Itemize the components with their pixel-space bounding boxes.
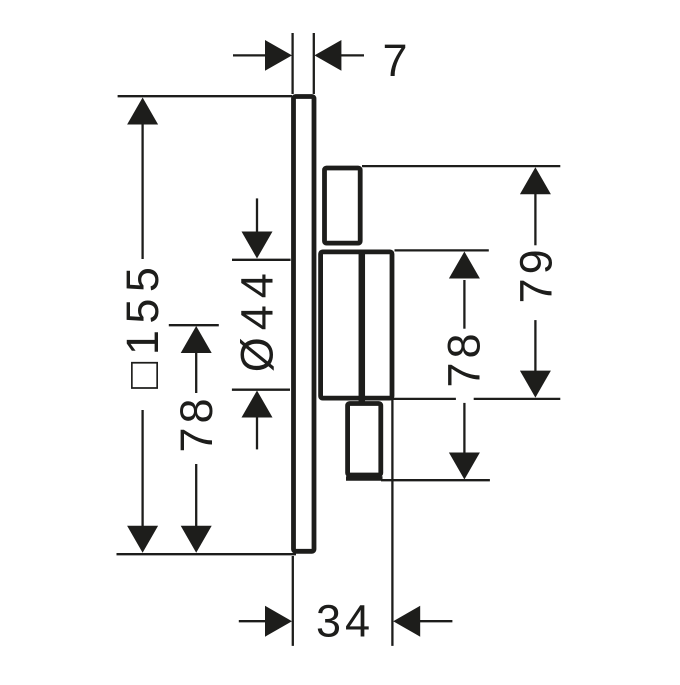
svg-text:Ø44: Ø44 xyxy=(232,266,283,372)
arrow 79 down xyxy=(520,371,551,398)
svg-text:7: 7 xyxy=(382,35,407,86)
lower stub bottom edge band xyxy=(346,476,383,481)
arrow d44 up xyxy=(242,391,273,418)
extension line bottom (plate bottom, y=554) xyxy=(117,553,297,555)
dim d44 boundary lower xyxy=(232,389,290,391)
dimension 7 line right xyxy=(341,54,364,56)
extension line 7-dim left xyxy=(291,33,293,94)
extension line 34-dim right xyxy=(391,400,393,646)
dim 79 leader upper xyxy=(534,193,536,245)
mixer body xyxy=(321,252,392,398)
arrow 155 down xyxy=(127,526,158,553)
arrow 79 up xyxy=(520,167,551,194)
extension line body bottom left part (y=399) xyxy=(392,398,456,400)
lower stub xyxy=(348,404,381,476)
svg-text:78: 78 xyxy=(171,394,222,452)
extension line 34-dim left xyxy=(292,556,294,646)
dim d44 boundary upper xyxy=(232,259,291,261)
arrow 155 up xyxy=(127,98,158,125)
arrow 78-left down xyxy=(181,526,212,553)
dimension 7 line left xyxy=(233,54,265,56)
arrow 34 left (points right) xyxy=(265,606,292,637)
arrow 78-left up xyxy=(181,326,212,353)
extension line body bottom right part (y=399) xyxy=(474,398,561,400)
dim 155 leader upper xyxy=(141,124,143,259)
extension line 7-dim right xyxy=(313,33,315,94)
dim 78-left leader lower xyxy=(195,464,197,527)
svg-text:34: 34 xyxy=(316,596,374,647)
svg-text:79: 79 xyxy=(510,245,561,303)
body step line xyxy=(359,252,366,404)
dim 78-right leader lower xyxy=(463,403,465,456)
svg-text:□155: □155 xyxy=(117,261,168,389)
arrow 78-right up xyxy=(449,252,480,279)
arrow 7 right (points left) xyxy=(314,40,341,71)
arrow 78-right down xyxy=(449,453,480,480)
dim d44 leader below xyxy=(256,416,258,449)
dim 155 leader lower xyxy=(141,410,143,527)
extension line stub top (y=166) xyxy=(362,165,560,167)
dimension 34 line left xyxy=(239,620,266,622)
dimension 34 line right xyxy=(420,620,452,622)
extension line body top (y=250) xyxy=(395,249,489,251)
dim d44 leader above xyxy=(256,198,258,233)
dim 78-left boundary line xyxy=(169,324,219,326)
arrow d44 down xyxy=(242,232,273,259)
arrow 34 right (points left) xyxy=(393,606,420,637)
dim 78-right leader upper xyxy=(463,280,465,329)
extension line lower stub bottom (y=480) xyxy=(381,479,490,481)
extension line top (plate top, y=96) xyxy=(118,95,292,97)
upper handle stub xyxy=(325,168,361,243)
svg-text:78: 78 xyxy=(439,329,490,387)
wall plate outline (7mm escutcheon, side view) xyxy=(294,97,315,552)
arrow 7 left (points right) xyxy=(265,40,292,71)
dim 78-left leader upper xyxy=(195,352,197,393)
dim 79 leader lower xyxy=(534,320,536,371)
